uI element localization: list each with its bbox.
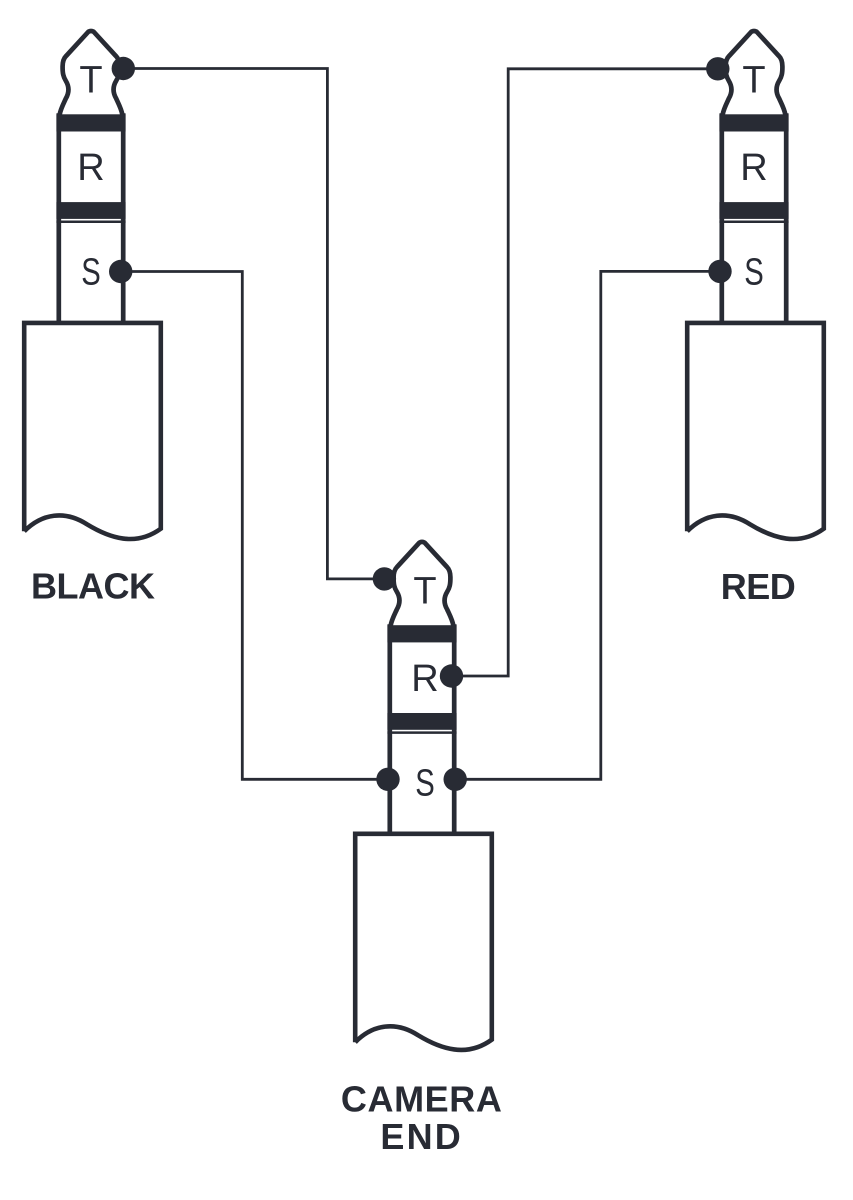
jack RED plug: cable body	[687, 323, 824, 539]
jack CAMERA END plug: shaft right edge	[452, 624, 457, 834]
junction: CAMERA tip	[373, 567, 396, 590]
jack RED plug: tip insulator band	[719, 114, 788, 131]
svg-text:R: R	[77, 147, 104, 189]
jack BLACK plug: tip outline	[60, 31, 123, 115]
jack BLACK plug: shaft right edge	[121, 113, 126, 323]
svg-text:R: R	[740, 147, 767, 189]
svg-text:R: R	[411, 658, 438, 700]
jack CAMERA END plug: tip outline	[391, 542, 454, 626]
jack RED plug: shaft right edge	[784, 113, 789, 323]
svg-text:T: T	[742, 60, 765, 102]
junction: RED sleeve	[708, 260, 731, 283]
jack BLACK plug: shaft left edge	[56, 113, 61, 323]
jack RED plug: ring/sleeve divider line	[719, 220, 788, 223]
jack BLACK plug: ring insulator band	[56, 202, 125, 219]
wire: RED tip to CAMERA ring	[452, 69, 718, 676]
wire: BLACK tip to CAMERA tip	[123, 69, 384, 579]
junction: RED tip	[706, 57, 729, 80]
junction: BLACK tip	[112, 57, 135, 80]
wire: BLACK sleeve to CAMERA sleeve	[121, 272, 388, 780]
svg-text:S: S	[744, 252, 764, 294]
jack RED plug: ring insulator band	[719, 202, 788, 219]
jack CAMERA END plug: ring/sleeve divider line	[387, 731, 456, 734]
svg-text:RED: RED	[721, 566, 796, 607]
jack BLACK plug: ring/sleeve divider line	[56, 220, 125, 223]
junction: CAMERA sleeve right	[444, 768, 467, 791]
svg-text:S: S	[415, 762, 435, 804]
svg-text:T: T	[413, 571, 436, 613]
jack RED plug: tip outline	[723, 31, 786, 115]
jack CAMERA END plug: cable body	[355, 834, 492, 1050]
jack BLACK plug: tip insulator band	[56, 114, 125, 131]
svg-text:S: S	[81, 252, 101, 294]
junction: BLACK sleeve	[109, 260, 132, 283]
svg-text:BLACK: BLACK	[31, 566, 155, 607]
svg-text:T: T	[79, 60, 102, 102]
jack BLACK plug: cable body	[24, 323, 161, 539]
jack RED plug: shaft left edge	[719, 113, 724, 323]
jack CAMERA END plug: tip insulator band	[387, 625, 456, 642]
wire: RED sleeve to CAMERA sleeve	[455, 271, 720, 779]
junction: CAMERA sleeve left	[376, 768, 399, 791]
svg-text:CAMERA: CAMERA	[341, 1079, 503, 1120]
svg-text:END: END	[380, 1116, 463, 1157]
jack CAMERA END plug: ring insulator band	[387, 713, 456, 730]
jack CAMERA END plug: shaft left edge	[387, 624, 392, 834]
junction: CAMERA ring	[440, 664, 463, 687]
